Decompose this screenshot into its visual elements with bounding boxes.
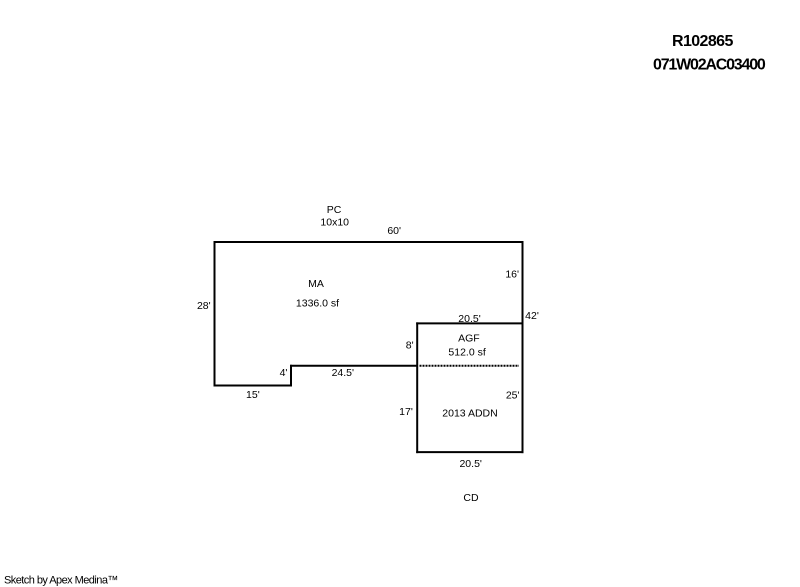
svg-text:8': 8' xyxy=(406,339,414,351)
svg-text:16': 16' xyxy=(505,269,519,281)
svg-text:25': 25' xyxy=(506,390,520,402)
svg-text:CD: CD xyxy=(463,492,479,504)
wall MA left 28' xyxy=(214,241,216,387)
svg-text:24.5': 24.5' xyxy=(332,367,354,379)
svg-text:2013 ADDN: 2013 ADDN xyxy=(442,408,497,420)
wall right 16'+25' xyxy=(522,241,524,453)
svg-text:15': 15' xyxy=(246,389,260,401)
dotted partition line inside AGF xyxy=(420,365,520,367)
svg-text:Sketch by Apex Medina™: Sketch by Apex Medina™ xyxy=(4,574,118,586)
svg-text:20.5': 20.5' xyxy=(459,458,481,470)
wall MA bottom-left 15' xyxy=(214,385,293,387)
svg-text:AGF: AGF xyxy=(458,333,480,345)
svg-text:28': 28' xyxy=(197,300,211,312)
svg-text:MA: MA xyxy=(308,278,324,290)
wall AGF top 20.5' xyxy=(416,322,523,324)
svg-text:10x10: 10x10 xyxy=(320,217,349,229)
svg-text:20.5': 20.5' xyxy=(458,313,480,325)
wall AGF left 8'+17' xyxy=(416,322,418,453)
svg-text:42': 42' xyxy=(525,310,539,322)
wall AGF bottom 20.5' xyxy=(416,451,523,453)
svg-text:60': 60' xyxy=(387,225,401,237)
svg-text:PC: PC xyxy=(327,204,342,216)
svg-text:071W02AC03400: 071W02AC03400 xyxy=(653,56,766,73)
svg-text:R102865: R102865 xyxy=(672,33,733,50)
svg-text:4': 4' xyxy=(280,367,288,379)
svg-text:512.0 sf: 512.0 sf xyxy=(448,347,485,359)
wall MA top 60' xyxy=(214,241,524,243)
svg-text:1336.0 sf: 1336.0 sf xyxy=(296,297,339,309)
svg-text:17': 17' xyxy=(399,406,413,418)
wall MA mid 24.5' xyxy=(290,365,418,367)
wall MA step 4' xyxy=(290,365,292,387)
